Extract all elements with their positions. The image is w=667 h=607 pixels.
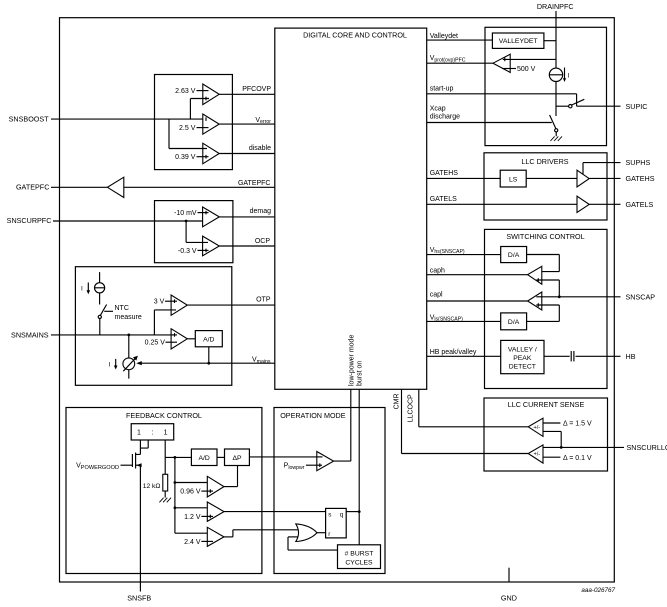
svg-text:1: 1	[137, 429, 141, 436]
svg-text:OTP: OTP	[256, 296, 271, 303]
svg-text:LLCOCP: LLCOCP	[408, 394, 415, 422]
svg-text:OPERATION MODE: OPERATION MODE	[280, 411, 346, 420]
svg-text:0.25 V: 0.25 V	[145, 340, 166, 347]
svg-text:Valleydet: Valleydet	[430, 33, 458, 40]
svg-text:SUPIC: SUPIC	[626, 102, 648, 111]
svg-text:SNSCURPFC: SNSCURPFC	[7, 216, 52, 225]
svg-text:HB: HB	[626, 352, 636, 361]
svg-text:ΔP: ΔP	[232, 455, 242, 462]
svg-text:DRAINPFC: DRAINPFC	[537, 2, 574, 11]
svg-text:D/A: D/A	[508, 252, 520, 259]
svg-text:Δ = 0.1 V: Δ = 0.1 V	[563, 455, 592, 462]
svg-text:DETECT: DETECT	[509, 363, 536, 370]
svg-text:DIGITAL CORE AND CONTROL: DIGITAL CORE AND CONTROL	[303, 31, 407, 40]
svg-text:low-power mode: low-power mode	[348, 335, 355, 386]
svg-text:q: q	[340, 512, 344, 519]
svg-text:discharge: discharge	[430, 114, 460, 121]
svg-text:I: I	[109, 362, 111, 369]
svg-text:CMR: CMR	[393, 393, 400, 409]
svg-text:-0.3 V: -0.3 V	[178, 248, 197, 255]
svg-text:D/A: D/A	[508, 319, 520, 326]
svg-text:SNSFB: SNSFB	[127, 593, 151, 602]
svg-text:A/D: A/D	[203, 336, 214, 343]
svg-text:measure: measure	[115, 314, 142, 321]
svg-text:PEAK: PEAK	[513, 355, 532, 362]
svg-text:LS: LS	[509, 176, 518, 183]
svg-text:LLC CURRENT SENSE: LLC CURRENT SENSE	[508, 400, 585, 409]
svg-text:2.4 V: 2.4 V	[184, 539, 201, 546]
svg-text:demag: demag	[250, 208, 272, 215]
svg-text:0.96 V: 0.96 V	[180, 489, 201, 496]
svg-text:+/-: +/-	[533, 452, 540, 458]
svg-text:capl: capl	[430, 291, 443, 298]
svg-text:aaa-026767: aaa-026767	[581, 587, 615, 594]
svg-text:I: I	[81, 285, 83, 292]
svg-text:CYCLES: CYCLES	[345, 560, 373, 567]
svg-text:SNSCURLLC: SNSCURLLC	[627, 443, 667, 452]
svg-text:SNSBOOST: SNSBOOST	[9, 115, 50, 124]
svg-text:GND: GND	[501, 593, 517, 602]
svg-text:SNSCAP: SNSCAP	[626, 292, 656, 301]
svg-text:VALLEYDET: VALLEYDET	[499, 38, 538, 45]
svg-text:SNSMAINS: SNSMAINS	[11, 330, 49, 339]
svg-text:GATEPFC: GATEPFC	[238, 180, 271, 187]
svg-text:3 V: 3 V	[154, 299, 165, 306]
svg-text:500 V: 500 V	[517, 66, 536, 73]
svg-text:s: s	[328, 512, 331, 519]
svg-text:VALLEY /: VALLEY /	[508, 346, 537, 353]
svg-text:12 kΩ: 12 kΩ	[143, 483, 161, 490]
svg-text:r: r	[328, 531, 330, 538]
svg-text:2.63 V: 2.63 V	[175, 88, 196, 95]
svg-text:SUPHS: SUPHS	[626, 158, 651, 167]
svg-text:1: 1	[164, 429, 168, 436]
svg-text::: :	[152, 429, 154, 436]
svg-text:FEEDBACK CONTROL: FEEDBACK CONTROL	[126, 411, 202, 420]
svg-text:OCP: OCP	[255, 238, 271, 245]
svg-text:GATEHS: GATEHS	[430, 170, 459, 177]
svg-text:GATEHS: GATEHS	[626, 174, 655, 183]
svg-text:GATELS: GATELS	[626, 200, 654, 209]
svg-text:NTC: NTC	[115, 305, 129, 312]
svg-text:caph: caph	[430, 267, 445, 274]
svg-text:+/-: +/-	[533, 425, 540, 431]
svg-text:start-up: start-up	[430, 85, 454, 92]
svg-text:GATEPFC: GATEPFC	[16, 183, 49, 192]
svg-text:SWITCHING CONTROL: SWITCHING CONTROL	[506, 232, 584, 241]
svg-text:-10 mV: -10 mV	[174, 210, 197, 217]
svg-text:0.39 V: 0.39 V	[175, 154, 196, 161]
svg-text:burst on: burst on	[357, 361, 364, 386]
svg-text:Δ = 1.5 V: Δ = 1.5 V	[563, 421, 592, 428]
svg-text:HB peak/valley: HB peak/valley	[430, 349, 477, 356]
svg-text:disable: disable	[249, 145, 271, 152]
svg-text:A/D: A/D	[199, 455, 210, 462]
svg-text:2.5 V: 2.5 V	[179, 125, 196, 132]
svg-text:I: I	[568, 73, 570, 80]
svg-text:Xcap: Xcap	[430, 105, 446, 112]
svg-text:GATELS: GATELS	[430, 196, 457, 203]
svg-text:PFCOVP: PFCOVP	[242, 86, 271, 93]
svg-text:1.2 V: 1.2 V	[184, 514, 201, 521]
svg-text:LLC DRIVERS: LLC DRIVERS	[521, 157, 568, 166]
svg-text:# BURST: # BURST	[345, 551, 374, 558]
